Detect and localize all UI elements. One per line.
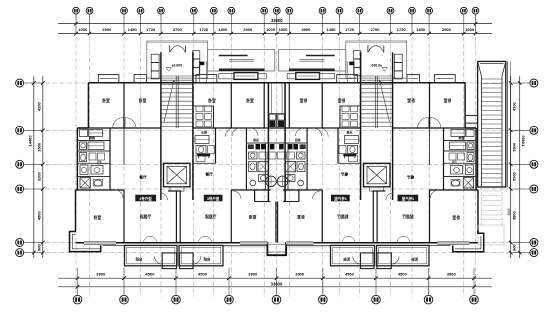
- svg-text:2900: 2900: [243, 27, 253, 32]
- svg-text:900: 900: [37, 243, 42, 250]
- svg-text:餐厅: 餐厅: [205, 172, 214, 177]
- svg-text:起居厅: 起居厅: [402, 214, 415, 219]
- svg-text:卧室: 卧室: [246, 98, 254, 103]
- svg-text:3900: 3900: [96, 272, 106, 277]
- svg-text:1000: 1000: [266, 27, 276, 32]
- unit type labels: [135, 195, 222, 202]
- horizontal axis grid lines: [24, 83, 529, 253]
- svg-text:卧室: 卧室: [249, 215, 257, 220]
- svg-text:3200: 3200: [37, 171, 42, 181]
- svg-text:3900: 3900: [295, 272, 305, 277]
- balconies: [125, 236, 277, 268]
- svg-text:4500: 4500: [398, 272, 408, 277]
- svg-text:2700: 2700: [371, 27, 381, 32]
- bottom axis bubbles: [73, 295, 478, 304]
- interior walls: [277, 83, 476, 243]
- terrace bottom-left: [70, 232, 101, 252]
- entrance porch: [147, 41, 208, 83]
- svg-text:4500: 4500: [198, 272, 208, 277]
- top wall window bays: [98, 75, 217, 83]
- svg-text:餐厅: 餐厅: [407, 175, 416, 180]
- svg-text:1450: 1450: [128, 27, 138, 32]
- door swings: [296, 118, 441, 201]
- svg-text:水表: 水表: [346, 130, 353, 135]
- unit type labels: [331, 195, 418, 202]
- fire stair ghost lower: [478, 187, 511, 245]
- svg-text:1000: 1000: [78, 27, 88, 32]
- svg-text:2900: 2900: [301, 27, 311, 32]
- svg-text:3500: 3500: [37, 142, 42, 152]
- staircase: [361, 52, 393, 200]
- top dimension lines: [58, 18, 492, 36]
- svg-text:33600: 33600: [271, 18, 283, 23]
- svg-text:4500: 4500: [146, 272, 156, 277]
- balconies: [277, 236, 429, 268]
- entrance porch: [346, 41, 407, 83]
- fire escape stair: [465, 61, 511, 187]
- svg-text:阳台: 阳台: [343, 256, 350, 261]
- svg-text:起居厅: 起居厅: [139, 214, 152, 219]
- bathroom kitchen fixtures left: [80, 130, 105, 189]
- svg-text:1450: 1450: [416, 27, 426, 32]
- elevator shaft: [164, 163, 191, 191]
- svg-text:卧室: 卧室: [444, 98, 452, 103]
- svg-text:2号户型: 2号户型: [139, 196, 152, 201]
- left dimension column: [509, 76, 538, 258]
- svg-text:3200: 3200: [512, 171, 517, 181]
- svg-text:卧室: 卧室: [338, 98, 346, 103]
- svg-text:14400: 14400: [27, 135, 32, 147]
- building outer walls: [277, 83, 478, 247]
- svg-text:阳台: 阳台: [136, 256, 143, 261]
- svg-text:起居厅: 起居厅: [337, 214, 350, 219]
- svg-text:阳台: 阳台: [204, 256, 211, 261]
- svg-text:2900: 2900: [102, 27, 112, 32]
- svg-text:卧室: 卧室: [407, 98, 415, 103]
- svg-text:1720: 1720: [397, 27, 407, 32]
- svg-text:3号户型: 3号户型: [334, 196, 347, 201]
- svg-text:阳台: 阳台: [411, 256, 418, 261]
- svg-text:卫生: 卫生: [452, 159, 458, 164]
- interior walls: [77, 83, 276, 243]
- bottom windows: [286, 241, 469, 244]
- svg-text:±0.000: ±0.000: [172, 63, 182, 67]
- left dimension column: [16, 76, 45, 258]
- svg-text:厨房: 厨房: [458, 135, 464, 140]
- svg-text:起居厅: 起居厅: [204, 214, 217, 219]
- svg-text:2900: 2900: [442, 27, 452, 32]
- svg-text:厨房: 厨房: [253, 137, 259, 142]
- svg-text:4500: 4500: [345, 272, 355, 277]
- svg-text:33600: 33600: [271, 282, 283, 287]
- bathroom kitchen fixtures left: [449, 130, 474, 189]
- svg-text:1720: 1720: [199, 27, 209, 32]
- svg-text:卧室: 卧室: [208, 98, 216, 103]
- elevator shaft: [364, 163, 391, 191]
- svg-text:4200: 4200: [512, 101, 517, 111]
- svg-text:2700: 2700: [173, 27, 183, 32]
- svg-text:4500: 4500: [507, 208, 511, 215]
- svg-text:1450: 1450: [218, 27, 228, 32]
- svg-text:餐厅: 餐厅: [340, 172, 349, 177]
- svg-text:2号户型: 2号户型: [401, 196, 414, 201]
- left half of plan: [16, 41, 277, 269]
- canopy and entry steps: [208, 50, 275, 80]
- svg-text:卧室: 卧室: [452, 215, 460, 220]
- svg-text:水表: 水表: [201, 130, 208, 135]
- svg-text:4500: 4500: [512, 211, 517, 221]
- canopy and entry steps: [279, 50, 346, 80]
- building outer walls: [76, 83, 277, 247]
- svg-text:卫生: 卫生: [96, 159, 102, 164]
- center service fixtures: [277, 115, 306, 187]
- svg-text:±0.000: ±0.000: [371, 63, 381, 67]
- svg-text:3号户型: 3号户型: [207, 196, 220, 201]
- bottom dimension lines: [58, 268, 492, 295]
- vertical axis grid lines: [76, 15, 476, 297]
- svg-text:1000: 1000: [465, 27, 475, 32]
- svg-text:14400: 14400: [521, 135, 526, 147]
- svg-text:卧室: 卧室: [102, 98, 110, 103]
- center service fixtures: [248, 115, 277, 187]
- bottom windows: [84, 241, 267, 244]
- svg-text:4200: 4200: [37, 101, 42, 111]
- svg-text:厨房: 厨房: [295, 137, 301, 142]
- svg-text:1720: 1720: [345, 27, 355, 32]
- svg-text:餐厅: 餐厅: [138, 175, 147, 180]
- room labels: [94, 98, 257, 220]
- right half (mirrored): [277, 41, 538, 269]
- svg-text:3900: 3900: [447, 272, 457, 277]
- svg-text:厨房: 厨房: [89, 135, 95, 140]
- staircase: [161, 52, 193, 200]
- svg-text:卧室: 卧室: [139, 98, 147, 103]
- svg-text:3500: 3500: [512, 142, 517, 152]
- top axis bubbles: [73, 7, 479, 33]
- top wall window bays: [337, 75, 456, 83]
- svg-text:卧室: 卧室: [297, 215, 305, 220]
- door swings: [113, 118, 258, 201]
- svg-text:900: 900: [512, 243, 517, 250]
- water meters and fixtures: [193, 106, 214, 162]
- svg-text:1450: 1450: [327, 27, 337, 32]
- svg-text:3900: 3900: [248, 272, 258, 277]
- svg-text:1720: 1720: [146, 27, 156, 32]
- room labels: [297, 98, 460, 220]
- terrace bottom-right: [453, 231, 484, 252]
- svg-text:卧室: 卧室: [94, 215, 102, 220]
- water meters and fixtures: [339, 106, 360, 162]
- svg-text:4500: 4500: [37, 211, 42, 221]
- svg-text:卧室: 卧室: [300, 98, 308, 103]
- svg-text:1000: 1000: [279, 27, 289, 32]
